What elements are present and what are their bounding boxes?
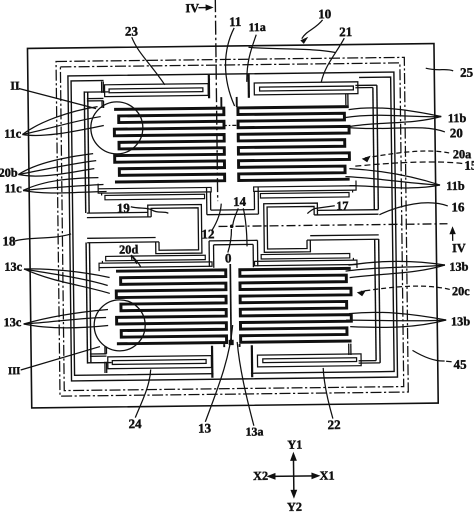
leader 13b bot a [349, 311, 446, 321]
axis arrow Y1 [290, 452, 297, 461]
leader 13c bot c [24, 323, 109, 328]
axis cross lines [292, 455, 294, 496]
svg-text:10: 10 [318, 6, 331, 21]
detail circle II [91, 102, 144, 155]
inner dash-dot groove ring [60, 63, 403, 391]
hook 17 upper lead [317, 209, 378, 212]
hook 17 lower lead [310, 234, 378, 237]
junction left wall [206, 188, 208, 215]
svg-text:22: 22 [327, 417, 340, 432]
comb-stem connector LL [223, 344, 225, 347]
svg-text:15: 15 [464, 158, 474, 173]
leader 11 [225, 28, 235, 106]
leader 11c bot b [23, 185, 104, 191]
section line IV vertical [215, 0, 217, 201]
stem mouth patch top [210, 77, 247, 82]
hook 19 lower lead [87, 237, 155, 240]
axis arrow Y2 [290, 490, 297, 499]
connector bar upper-right B [260, 193, 349, 198]
svg-text:13b: 13b [449, 260, 468, 274]
leader 11c top c [22, 126, 104, 136]
right vertical rail lower [379, 239, 380, 363]
leader 24 [135, 369, 152, 417]
centre tick [223, 124, 239, 126]
leader 19 [131, 206, 169, 213]
leader 22 [323, 368, 333, 419]
leader 20d a [130, 255, 133, 261]
lead bar 22 inner [263, 358, 357, 363]
leader 13b bot b [346, 319, 446, 322]
corner lead top-right [355, 84, 376, 86]
svg-text:18: 18 [2, 233, 16, 248]
svg-text:11c: 11c [5, 181, 23, 195]
detail circle III [94, 300, 146, 352]
svg-text:11b: 11b [448, 111, 467, 125]
hook 19 upper lead [87, 211, 148, 214]
svg-text:21: 21 [339, 24, 352, 39]
leader 13c top a [24, 268, 110, 279]
svg-text:13c: 13c [4, 260, 22, 274]
comb-stem connector UL [220, 97, 222, 107]
bar join lower-left [98, 268, 100, 271]
corner lead bottom-right [359, 362, 380, 364]
leader 11b top b [345, 115, 442, 118]
leader 13c top c [24, 268, 110, 295]
arrowhead 20a [362, 156, 371, 163]
svg-text:III: III [8, 366, 20, 377]
leader 14 left [233, 208, 239, 225]
connector bar upper-right A [254, 186, 356, 192]
left vertical rail lower [86, 243, 87, 364]
electrode hook 17 outer [264, 203, 318, 252]
bar join upper-left [97, 184, 99, 189]
lead bar 23 inner [109, 88, 203, 93]
lead bar 22 outer [257, 354, 361, 367]
leader 11b bot c [350, 185, 441, 189]
axis arrow X2 [266, 473, 275, 480]
comb-stem connector LR [239, 344, 241, 347]
connector bar lower-right B [261, 254, 350, 259]
serpentine resistor 13 lower-right comb [240, 268, 352, 342]
leader 18 [15, 234, 72, 241]
leader 14 right [243, 208, 247, 246]
leader 20b b [18, 161, 96, 175]
svg-text:25: 25 [460, 65, 474, 80]
leader 23 [132, 37, 165, 85]
leader 20a [365, 151, 449, 158]
leader 20b c [18, 169, 94, 177]
svg-text:11c: 11c [4, 126, 22, 140]
comb-stem connector UR [236, 97, 238, 107]
svg-text:20c: 20c [452, 284, 470, 298]
connector bar upper-left A [98, 187, 211, 193]
leader 11c top a [22, 107, 98, 135]
svg-text:II: II [10, 79, 20, 93]
junction right wall [257, 187, 259, 214]
leader 20b a [18, 154, 93, 175]
electrode hook 19 inner [151, 208, 198, 251]
right vertical rail upper [377, 85, 378, 209]
connector bar lower-left A [99, 262, 212, 268]
connector bar lower-right A [255, 260, 357, 266]
extra curve near 10 [248, 46, 335, 54]
svg-text:Y2: Y2 [287, 500, 302, 512]
leader 13b bot c [350, 320, 446, 328]
connector bar lower-left B [106, 255, 206, 261]
svg-text:13c: 13c [3, 315, 21, 329]
ring inner top-left gap [104, 77, 209, 82]
stem foot connector [229, 340, 233, 344]
corner lead top-left [101, 82, 103, 93]
svg-text:17: 17 [336, 199, 348, 213]
svg-text:11b: 11b [446, 179, 465, 193]
section line IV horizontal [219, 224, 448, 227]
outer dash-dot groove ring 45 [56, 57, 408, 396]
leader 13b top b [345, 265, 445, 271]
svg-text:23: 23 [125, 24, 139, 39]
svg-text:20: 20 [450, 125, 463, 140]
leader 10 [302, 20, 323, 39]
svg-text:19: 19 [117, 200, 131, 215]
stem mouth patch bottom [214, 371, 251, 376]
left vertical rail upper [84, 91, 85, 213]
leader II [19, 88, 96, 110]
lead bar 21 inner [260, 86, 354, 91]
leader 15 [353, 162, 462, 167]
leader 13 [204, 325, 234, 422]
support frame ring 18 outer line [68, 72, 398, 381]
leader 20d b [131, 255, 137, 264]
electrode hook 17 inner [267, 206, 314, 249]
lower junction right arm [256, 240, 258, 266]
serpentine resistor 11 upper-right comb [238, 107, 350, 181]
lower centre stem 13a [229, 264, 232, 344]
lead bar 24 outer [108, 356, 212, 369]
axis arrow X1 [311, 472, 320, 479]
lower junction left arm [208, 241, 210, 267]
svg-text:X1: X1 [319, 469, 334, 483]
leader 11b top c [349, 117, 442, 127]
leader 13c top b [24, 268, 108, 286]
bar join upper-right [355, 181, 357, 186]
svg-text:X2: X2 [253, 469, 268, 483]
section arrow IV right [452, 231, 454, 240]
leader 17 [307, 206, 335, 214]
leader 13c bot b [24, 318, 107, 324]
svg-text:11: 11 [229, 14, 241, 29]
svg-text:14: 14 [233, 194, 247, 209]
svg-text:45: 45 [453, 357, 467, 372]
leader 11c bot a [23, 178, 99, 191]
svg-text:11a: 11a [248, 20, 265, 34]
support frame ring 18 inner line [71, 77, 394, 375]
leader 0 [228, 229, 232, 253]
leader 11c bot c [23, 189, 107, 193]
arrowhead 20c [357, 290, 367, 297]
svg-text:16: 16 [451, 199, 465, 214]
lead bar 21 outer [254, 82, 358, 95]
svg-text:20d: 20d [119, 242, 138, 256]
lead bar 24 inner [112, 360, 206, 365]
lower anchor stem walls [211, 346, 214, 378]
leader 13b top a [348, 261, 445, 266]
arrowhead 10 [300, 37, 308, 44]
corner lead bottom-left [104, 362, 106, 373]
leader III [20, 347, 100, 370]
svg-text:IV: IV [452, 241, 466, 255]
leader 13b top c [349, 265, 445, 278]
electrode hook 19 outer [148, 204, 202, 253]
serpentine resistor 13 lower-left comb [116, 270, 227, 344]
upper anchor stem 11a walls [208, 75, 210, 98]
svg-text:0: 0 [225, 250, 232, 265]
svg-text:Y1: Y1 [287, 438, 302, 452]
leader 13a [237, 342, 254, 426]
svg-text:13b: 13b [451, 314, 470, 328]
leader 45 dash [446, 360, 452, 363]
svg-text:20b: 20b [0, 166, 18, 180]
ring inner top-right gap [248, 76, 359, 81]
section arrow IV top [198, 7, 208, 9]
leader 21 [321, 38, 345, 82]
serpentine resistor 11 upper-left comb [114, 108, 225, 182]
leader 45 [412, 350, 444, 361]
svg-text:24: 24 [128, 416, 142, 431]
leader 11b top a [349, 107, 442, 118]
connector bar upper-left B [105, 194, 205, 200]
lower junction top bar [209, 239, 257, 242]
svg-text:13: 13 [198, 420, 212, 435]
leader 25 [426, 68, 453, 71]
lead bar 23 outer [105, 84, 209, 97]
leader 11c top b [22, 117, 101, 135]
bar join lower-right [356, 265, 358, 268]
leader 20d c [131, 255, 141, 268]
svg-text:13a: 13a [245, 424, 263, 438]
svg-text:12: 12 [201, 226, 214, 241]
leader 20c [361, 286, 450, 292]
leader 16 [379, 203, 448, 215]
outer chip boundary square [27, 44, 438, 408]
leader 11b bot b [345, 176, 440, 187]
leader 12 [212, 204, 222, 231]
svg-text:IV: IV [185, 1, 199, 15]
leader 20 [349, 126, 445, 133]
origin dot 0 [230, 224, 234, 228]
leader 13c bot a [23, 309, 108, 324]
leader 11b bot a [349, 168, 440, 187]
leader 11a [246, 35, 257, 82]
junction bottom closure [211, 209, 255, 212]
